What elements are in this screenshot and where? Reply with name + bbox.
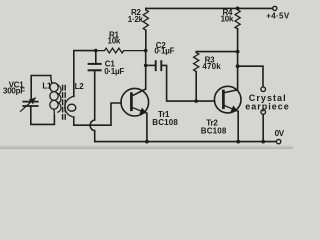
node C1/R1/L2 junction: [94, 49, 98, 53]
wire R3 top: [196, 51, 237, 54]
capacitor C2: [155, 61, 157, 70]
terminal earpiece bottom: [261, 110, 266, 115]
wire earpiece top: [238, 66, 263, 86]
node R4 top on rail: [236, 6, 240, 10]
wire R2 top corner: [145, 8, 147, 9]
resistor R3: [194, 52, 199, 71]
terminal +4.5V: [273, 6, 277, 10]
wire +4.5V top rail: [146, 7, 273, 9]
wire VC1 bottom lead: [31, 107, 55, 125]
transformer core: [62, 86, 64, 122]
wire L2 bottom to Tr1 base: [74, 103, 121, 125]
svg-text:earpiece: earpiece: [245, 101, 290, 111]
svg-text:L2: L2: [75, 82, 85, 91]
terminal earpiece top: [261, 87, 266, 92]
node C2 tap: [144, 64, 148, 68]
inductor L2: [65, 96, 74, 117]
wire tank top: [31, 76, 51, 101]
wire C1 bottom lead to 0V rail (hops over base wire): [90, 71, 95, 141]
svg-text:BC108: BC108: [152, 118, 178, 127]
node earpiece on rail: [261, 140, 265, 144]
wire R3 bottom lead: [195, 72, 197, 102]
resistor R2: [143, 10, 148, 30]
svg-text:BC108: BC108: [201, 126, 227, 135]
transistor Tr1: [121, 88, 149, 116]
svg-text:1·2k: 1·2k: [128, 15, 144, 24]
wire C1 top lead: [95, 51, 97, 64]
wire R4 bottom to Tr2 collector: [237, 29, 239, 90]
wire C2 left lead: [146, 64, 155, 66]
node Tr2 emitter on rail: [236, 140, 240, 144]
node Tr1 emitter on rail: [145, 140, 149, 144]
wire C2 right lead to Tr2 base: [162, 65, 214, 101]
capacitor VC1: [23, 101, 37, 103]
paper background: [0, 0, 293, 149]
terminal 0V: [276, 139, 280, 143]
node earpiece junction: [236, 64, 240, 68]
svg-text:10k: 10k: [221, 15, 234, 24]
wire VC1 arrow: [21, 98, 36, 111]
svg-text:10k: 10k: [108, 37, 121, 46]
svg-text:470k: 470k: [202, 62, 221, 71]
svg-text:+4·5V: +4·5V: [266, 12, 290, 21]
svg-text:300pF: 300pF: [3, 87, 25, 96]
wire L2 top to C1 node: [74, 51, 96, 97]
resistor R4: [235, 8, 240, 29]
svg-text:0·1µF: 0·1µF: [104, 67, 124, 76]
wire R2 bottom to node: [145, 30, 147, 50]
resistor R1: [96, 48, 146, 53]
wire Tr2 emitter: [237, 111, 239, 141]
transistor Tr2: [214, 86, 241, 113]
node R1/R2 junction: [144, 49, 148, 53]
wire earpiece bottom: [262, 115, 264, 142]
inductor L1: [51, 76, 52, 84]
capacitor C1: [89, 63, 101, 65]
wire 0V bottom rail: [95, 141, 277, 143]
wire Tr1 emitter: [146, 113, 148, 141]
svg-text:0·1µF: 0·1µF: [154, 47, 174, 56]
node R3 junction: [236, 50, 240, 54]
wire Tr1 collector: [145, 51, 147, 89]
svg-text:0V: 0V: [275, 129, 285, 138]
svg-text:L1: L1: [42, 82, 52, 91]
node R3 base junction: [194, 99, 198, 103]
